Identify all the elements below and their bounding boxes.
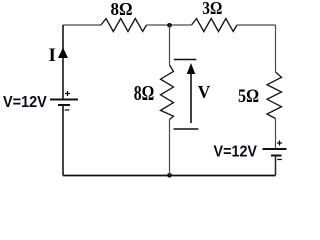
battery B1 minus sign xyxy=(65,109,70,111)
battery B2 long plate xyxy=(263,148,287,150)
resistor R4 5ohm vertical zigzag xyxy=(267,72,282,119)
battery B2 minus sign xyxy=(277,159,282,161)
voltage arrow V head xyxy=(187,63,195,74)
wire left vertical lower xyxy=(62,105,64,176)
svg-text:V: V xyxy=(198,82,211,102)
node junction dot top xyxy=(167,23,172,28)
battery B1 short plate xyxy=(58,104,70,106)
resistor R3 8ohm vertical zigzag xyxy=(161,65,174,120)
wire top horizontal left segment xyxy=(63,24,101,26)
voltage arrow V top bar xyxy=(174,59,197,61)
battery B1 long plate xyxy=(50,99,78,101)
node junction dot bottom xyxy=(167,173,172,178)
battery B2 short plate xyxy=(271,155,282,157)
wire left vertical upper xyxy=(62,25,64,99)
voltage arrow V bottom bar xyxy=(174,128,199,130)
svg-text:V=12V: V=12V xyxy=(3,94,47,111)
battery B2 plus sign xyxy=(277,142,282,144)
wire top horizontal right segment xyxy=(237,24,276,26)
svg-text:5Ω: 5Ω xyxy=(238,86,259,107)
wire middle vertical lower xyxy=(169,120,171,176)
svg-text:V=12V: V=12V xyxy=(214,143,258,160)
svg-text:8Ω: 8Ω xyxy=(134,81,155,105)
current arrow I xyxy=(58,48,68,59)
svg-text:3Ω: 3Ω xyxy=(202,0,222,18)
resistor R2 3ohm zigzag xyxy=(192,19,238,32)
wire middle vertical upper xyxy=(169,25,171,65)
wire top horizontal middle segment xyxy=(147,24,192,26)
voltage arrow V shaft xyxy=(190,73,192,123)
svg-text:I: I xyxy=(49,45,56,66)
svg-text:8Ω: 8Ω xyxy=(111,0,133,19)
wire right vertical lower xyxy=(275,156,277,176)
wire right vertical middle xyxy=(275,119,277,150)
battery B1 plus sign xyxy=(65,93,70,95)
wire right vertical upper xyxy=(275,25,277,72)
wire bottom horizontal xyxy=(63,175,276,177)
resistor R1 8ohm zigzag xyxy=(101,19,147,32)
